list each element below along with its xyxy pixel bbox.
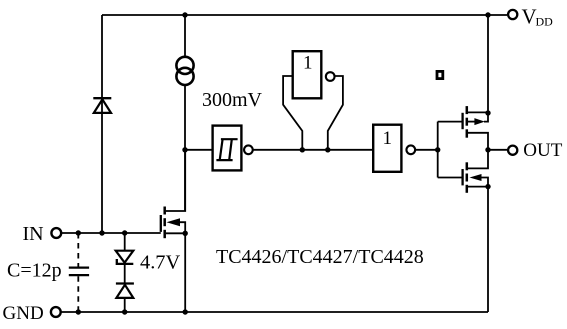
node Q1 source: [183, 231, 188, 236]
zener Z1: [116, 251, 134, 264]
label C=12p: [7, 260, 62, 282]
wire dashed cap branch: [77, 233, 79, 312]
node Q2 source: [485, 110, 490, 115]
terminal OUT: [508, 146, 517, 155]
node VDD rail: [485, 12, 490, 17]
terminal GND: [51, 307, 61, 317]
wire U3 output: [416, 149, 438, 151]
wire schmitt output: [253, 149, 372, 151]
capacitor C1: [69, 268, 89, 276]
wire IN line: [62, 232, 161, 234]
schmitt trigger U1: [213, 126, 253, 171]
svg-text:4.7V: 4.7V: [140, 251, 180, 273]
svg-text:DD: DD: [536, 14, 554, 28]
node gate bus: [435, 147, 440, 152]
transistor Q3 nmos: [438, 150, 488, 193]
transistor Q2 pmos: [438, 106, 488, 150]
node schmitt input: [182, 147, 187, 152]
node cap branch: [76, 230, 81, 235]
small square marker: [437, 71, 443, 78]
label IN: [23, 223, 44, 245]
wire top rail: [102, 14, 507, 16]
wire diode to ground: [124, 298, 126, 312]
svg-text:IN: IN: [23, 223, 44, 245]
svg-text:GND: GND: [3, 303, 44, 324]
diode D1: [93, 98, 111, 113]
svg-text:300mV: 300mV: [202, 89, 263, 111]
node ground center rail: [183, 309, 188, 314]
wire VDD rail: [487, 15, 489, 113]
node zener branch: [122, 230, 127, 235]
node Q3 source: [485, 184, 490, 189]
wire left rail: [101, 15, 103, 233]
wire center rail upper: [184, 15, 186, 57]
wire Q1 source to ground: [184, 233, 186, 312]
node ground diode: [122, 309, 127, 314]
wire U2 output leg: [328, 76, 343, 150]
wire zener branch upper: [124, 233, 126, 251]
wire Q3 source to ground: [487, 187, 489, 312]
svg-text:TC4426/TC4427/TC4428: TC4426/TC4427/TC4428: [216, 246, 424, 268]
label OUT: [523, 140, 562, 161]
label GND: [3, 303, 44, 324]
wire ground rail: [61, 311, 488, 313]
transistor Q1 nmos input: [161, 150, 185, 238]
label 300mV: [202, 89, 263, 111]
terminal IN: [51, 228, 61, 238]
inverter U2: [293, 51, 335, 98]
current source I1: [176, 57, 193, 85]
svg-text:1: 1: [383, 128, 393, 149]
node left leg: [300, 147, 305, 152]
wire OUT: [488, 149, 507, 151]
label 4.7V: [140, 251, 180, 273]
node ground cap: [76, 309, 81, 314]
diode D2: [116, 284, 134, 298]
node OUT: [485, 147, 490, 152]
wire zener to diode: [124, 264, 126, 284]
svg-text:1: 1: [303, 53, 313, 74]
wire schmitt input: [185, 149, 212, 151]
svg-text:V: V: [522, 4, 537, 28]
wire U2 input leg: [283, 76, 302, 150]
label TC4426/TC4427/TC4428: [216, 246, 424, 268]
wire center rail mid: [184, 85, 186, 211]
svg-text:OUT: OUT: [523, 140, 562, 161]
node left rail join: [99, 230, 104, 235]
label VDD: [522, 4, 554, 28]
terminal VDD: [508, 10, 517, 19]
node top center: [182, 12, 187, 17]
node right leg: [325, 147, 330, 152]
inverter U3: [373, 125, 415, 172]
svg-text:C=12p: C=12p: [7, 260, 62, 282]
wire gate bus: [437, 122, 439, 178]
